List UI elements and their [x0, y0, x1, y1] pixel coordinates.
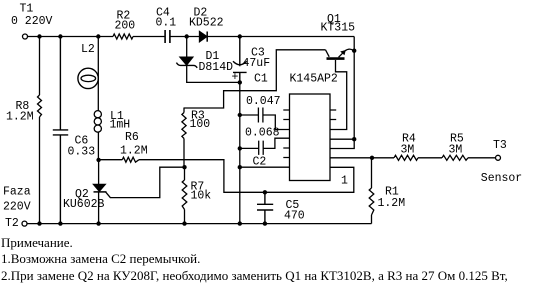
svg-text:Примечание.: Примечание. — [1, 235, 73, 250]
thyristor Q2 — [94, 184, 106, 191]
svg-text:2.При замене Q2 на КУ208Г, нео: 2.При замене Q2 на КУ208Г, необходимо за… — [1, 268, 508, 283]
IC left pin stubs — [283, 110, 289, 158]
svg-text:1.2M: 1.2M — [120, 145, 148, 158]
wire bottom rail — [27, 223, 372, 225]
capacitor C5 — [257, 192, 273, 223]
wire Q1 collector to IC pin — [330, 60, 347, 130]
wire R3 to Q1 base — [184, 50, 326, 108]
capacitor C3 — [233, 37, 247, 83]
svg-text:T2: T2 — [5, 217, 19, 230]
terminal T3 — [496, 155, 501, 160]
node dot rail-C3 — [238, 34, 242, 38]
svg-text:220V: 220V — [3, 201, 31, 214]
node dot bottom-rail — [238, 221, 242, 225]
wire D1 to rail — [187, 65, 240, 82]
svg-text:1: 1 — [341, 175, 348, 188]
lamp L2 — [78, 68, 98, 88]
diode D2 — [200, 32, 207, 42]
svg-text:K145AP2: K145AP2 — [290, 73, 338, 86]
svg-text:200: 200 — [115, 20, 136, 33]
node dot bottom-R7 — [182, 221, 186, 225]
terminal T2 — [22, 221, 27, 226]
node dot bottom-C6 — [58, 221, 62, 225]
svg-text:3M: 3M — [449, 144, 463, 157]
resistor R6 — [99, 157, 139, 162]
svg-text:0.047: 0.047 — [246, 95, 281, 108]
node dot rail-R8 — [37, 34, 41, 38]
svg-text:1.Возможна замена C2 перемычко: 1.Возможна замена C2 перемычкой. — [1, 251, 200, 266]
svg-text:1mH: 1mH — [110, 119, 131, 132]
svg-text:KT315: KT315 — [321, 22, 356, 35]
wire L1 to node — [97, 132, 99, 160]
node dot Q1 emitter — [352, 49, 356, 53]
svg-text:1.2M: 1.2M — [6, 111, 34, 124]
terminal T1 — [23, 34, 28, 39]
resistor R4 — [394, 155, 418, 160]
svg-text:R6: R6 — [125, 131, 139, 144]
svg-text:C2: C2 — [253, 156, 267, 169]
node dot C2 — [238, 146, 242, 150]
node dot D1-C3 — [238, 80, 242, 84]
node dot rail-pin — [238, 165, 242, 169]
svg-text:D814D: D814D — [199, 61, 234, 74]
node dot L1-R6 — [96, 158, 100, 162]
svg-text:KU602B: KU602B — [63, 198, 105, 211]
resistor R1 — [369, 158, 374, 224]
wire lamp column — [97, 37, 99, 111]
svg-text:0.33: 0.33 — [68, 146, 96, 159]
wire mid rail — [239, 82, 241, 223]
svg-text:0.068: 0.068 — [245, 127, 280, 140]
svg-text:470: 470 — [284, 210, 305, 223]
svg-text:0.1: 0.1 — [156, 17, 177, 30]
IC U1 K145AP2 box — [290, 94, 331, 181]
transistor Q1 — [326, 50, 330, 57]
svg-text:3M: 3M — [401, 144, 415, 157]
node dot sensor-R1 — [370, 156, 374, 160]
wire sensor line — [330, 157, 496, 159]
node dot C1 — [238, 113, 242, 117]
resistor R7 — [182, 167, 187, 223]
diode D1 — [186, 37, 188, 58]
wire Q2 gate — [106, 167, 185, 197]
capacitor C4 — [165, 30, 170, 43]
node dot R3-R7 — [182, 165, 186, 169]
svg-text:T3: T3 — [493, 139, 507, 152]
svg-text:10k: 10k — [191, 190, 212, 203]
node dot bottom-C5 — [263, 221, 267, 225]
svg-text:47uF: 47uF — [243, 57, 271, 70]
wire rail to IC pin — [240, 166, 290, 168]
svg-text:0 220V: 0 220V — [11, 15, 53, 28]
node dot bottom-Q2 — [96, 221, 100, 225]
node dot rail-L2 — [96, 34, 100, 38]
svg-text:C1: C1 — [254, 73, 268, 86]
wire R6 to pin1 path — [139, 160, 354, 193]
wire thyristor column — [98, 160, 100, 224]
svg-text:Sensor: Sensor — [481, 172, 522, 185]
capacitor C1 — [240, 108, 290, 130]
svg-text:Faza: Faza — [3, 186, 31, 199]
svg-text:1.2M: 1.2M — [378, 197, 406, 210]
svg-text:L2: L2 — [81, 43, 95, 56]
IC right pin stubs — [330, 110, 336, 120]
node dot C5 top — [263, 190, 267, 194]
node dot rail-D1 — [185, 34, 189, 38]
wire top rail — [28, 36, 355, 38]
svg-text:+: + — [232, 71, 239, 84]
inductor L1 — [94, 111, 101, 118]
wire rail x354 — [330, 37, 354, 149]
capacitor C2 — [240, 138, 290, 155]
capacitor C6 — [53, 37, 68, 224]
resistor R2 — [113, 34, 133, 39]
svg-text:T1: T1 — [20, 3, 34, 16]
svg-text:KD522: KD522 — [189, 17, 224, 30]
resistor R5 — [442, 155, 468, 160]
svg-text:100: 100 — [190, 118, 211, 131]
node dot bottom-R8 — [37, 221, 41, 225]
resistor R3 — [182, 108, 186, 168]
node dot x354-pin — [352, 137, 356, 141]
resistor R8 — [38, 37, 42, 224]
node dot rail-C6 — [58, 34, 62, 38]
